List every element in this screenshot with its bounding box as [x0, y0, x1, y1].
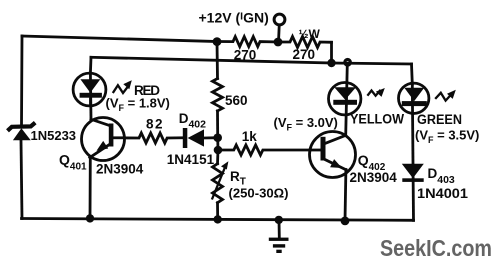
svg-text:SeekIC.com: SeekIC.com	[380, 235, 492, 261]
svg-text:82: 82	[146, 117, 163, 132]
svg-text:1N4151: 1N4151	[167, 152, 215, 167]
svg-text:GREEN: GREEN	[417, 112, 462, 127]
svg-text:D402: D402	[179, 111, 206, 131]
svg-text:2N3904: 2N3904	[350, 170, 398, 185]
svg-text:1N5233: 1N5233	[31, 128, 77, 143]
svg-text:(250-30Ω): (250-30Ω)	[229, 187, 289, 201]
svg-text:YELLOW: YELLOW	[350, 111, 405, 127]
svg-text:270: 270	[293, 47, 316, 62]
svg-text:1N4001: 1N4001	[417, 186, 469, 201]
svg-text:270: 270	[234, 47, 257, 62]
svg-text:2N3904: 2N3904	[96, 162, 144, 177]
svg-text:Q401: Q401	[59, 152, 87, 173]
svg-text:(VF = 3.5V): (VF = 3.5V)	[415, 128, 479, 146]
svg-text:RT: RT	[230, 169, 246, 188]
svg-text:(VF = 3.0V): (VF = 3.0V)	[274, 115, 338, 133]
svg-text:+12V (IGN): +12V (IGN)	[199, 10, 269, 26]
svg-text:1k: 1k	[242, 129, 258, 144]
svg-text:D403: D403	[428, 166, 455, 186]
svg-text:560: 560	[225, 93, 248, 108]
svg-text:½W: ½W	[299, 27, 321, 41]
svg-text:(VF = 1.8V): (VF = 1.8V)	[106, 96, 170, 114]
